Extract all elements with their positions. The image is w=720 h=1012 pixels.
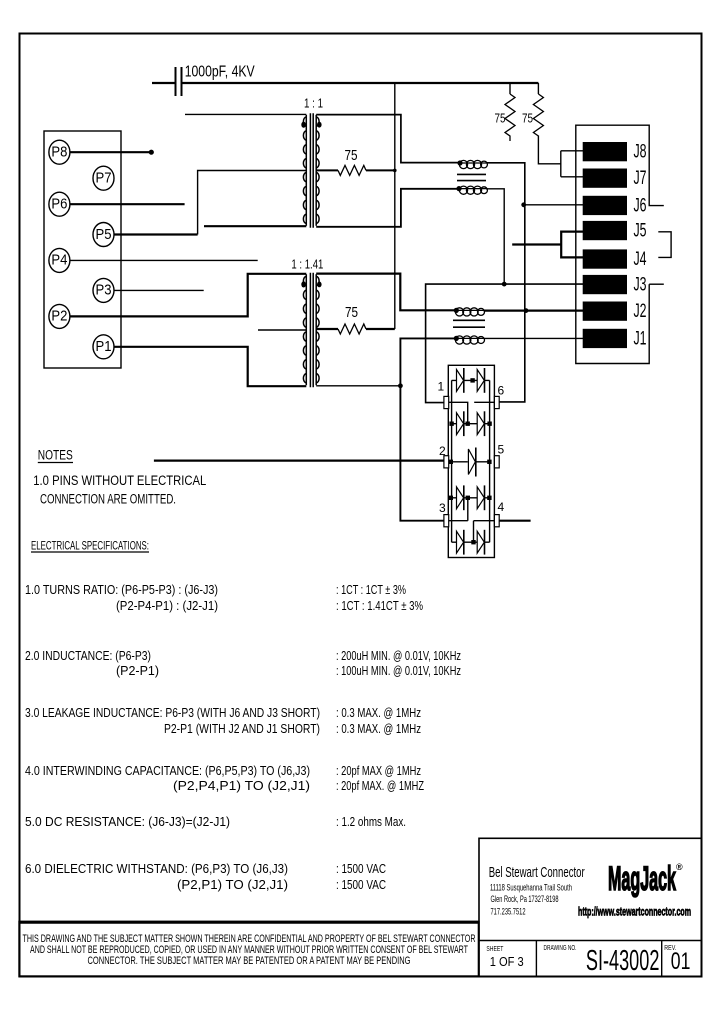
svg-text:DRAWING NO.: DRAWING NO.	[544, 943, 577, 952]
svg-text:1 OF 3: 1 OF 3	[490, 954, 524, 969]
svg-text:Bel Stewart Connector: Bel Stewart Connector	[489, 865, 585, 881]
svg-text:: 1CT : 1.41CT ± 3%: : 1CT : 1.41CT ± 3%	[336, 598, 423, 613]
svg-text:: 1500 VAC: : 1500 VAC	[336, 861, 386, 876]
svg-text:3: 3	[439, 501, 446, 515]
svg-text:1 : 1.41: 1 : 1.41	[291, 256, 323, 271]
svg-text:SI-43002: SI-43002	[586, 945, 660, 977]
svg-text:J1: J1	[634, 328, 647, 349]
svg-text:SHEET: SHEET	[486, 944, 503, 953]
svg-text:1 : 1: 1 : 1	[304, 96, 323, 111]
svg-text:2.0 INDUCTANCE: (P6-P3): 2.0 INDUCTANCE: (P6-P3)	[25, 648, 151, 663]
svg-text:: 200uH MIN. @ 0.01V, 10KHz: : 200uH MIN. @ 0.01V, 10KHz	[336, 648, 461, 663]
svg-text:(P2,P1) TO (J2,J1): (P2,P1) TO (J2,J1)	[177, 877, 288, 892]
svg-text:J6: J6	[634, 195, 647, 216]
svg-text:P8: P8	[51, 145, 67, 161]
svg-text:11118 Susquehanna Trail South: 11118 Susquehanna Trail South	[490, 883, 572, 893]
svg-text:6.0 DIELECTRIC WITHSTAND: (P6,: 6.0 DIELECTRIC WITHSTAND: (P6,P3) TO (J6…	[25, 861, 288, 876]
svg-text:P3: P3	[96, 283, 112, 299]
svg-text:: 100uH MIN. @ 0.01V, 10KHz: : 100uH MIN. @ 0.01V, 10KHz	[336, 663, 461, 678]
svg-text:J8: J8	[634, 142, 647, 163]
svg-text:75: 75	[345, 147, 358, 164]
svg-text:1.0 TURNS RATIO: (P6-P5-P3) :: 1.0 TURNS RATIO: (P6-P5-P3) : (J6-J3)	[25, 582, 218, 597]
svg-text:: 20pf MAX @ 1MHz: : 20pf MAX @ 1MHz	[336, 763, 421, 778]
svg-text:Glen Rock, Pa 17327-8198: Glen Rock, Pa 17327-8198	[491, 894, 559, 904]
svg-text:1: 1	[438, 380, 445, 394]
svg-text:P5: P5	[96, 227, 112, 243]
svg-text:P2-P1 (WITH J2 AND J1 SHORT): P2-P1 (WITH J2 AND J1 SHORT)	[164, 721, 320, 736]
svg-text:5.0 DC RESISTANCE: (J6-J3)=(J2: 5.0 DC RESISTANCE: (J6-J3)=(J2-J1)	[25, 814, 230, 829]
svg-text:2: 2	[439, 444, 446, 458]
svg-text:75: 75	[495, 111, 506, 126]
svg-text:®: ®	[676, 862, 683, 872]
svg-text:717.235.7512: 717.235.7512	[491, 907, 526, 917]
svg-text:P6: P6	[51, 197, 67, 213]
svg-text:J2: J2	[634, 301, 647, 322]
svg-text:(P2-P1): (P2-P1)	[116, 663, 159, 678]
svg-text:http://www.stewartconnector.co: http://www.stewartconnector.com	[578, 905, 691, 919]
svg-text:P4: P4	[51, 253, 67, 269]
svg-text:75: 75	[522, 111, 533, 126]
svg-text:1000pF, 4KV: 1000pF, 4KV	[185, 64, 255, 81]
svg-text:75: 75	[345, 304, 358, 321]
svg-text:4: 4	[498, 500, 505, 514]
svg-text:1.0 PINS WITHOUT ELECTRICAL: 1.0 PINS WITHOUT ELECTRICAL	[33, 473, 206, 488]
svg-text:: 1500 VAC: : 1500 VAC	[336, 877, 386, 892]
svg-text:6: 6	[498, 384, 505, 398]
svg-text:01: 01	[671, 948, 691, 975]
svg-text:: 1CT : 1CT ± 3%: : 1CT : 1CT ± 3%	[336, 582, 406, 597]
svg-text:: 0.3 MAX. @ 1MHz: : 0.3 MAX. @ 1MHz	[336, 721, 421, 736]
svg-text:CONNECTION ARE OMITTED.: CONNECTION ARE OMITTED.	[40, 492, 176, 507]
svg-text:3.0 LEAKAGE INDUCTANCE: P6-P3: 3.0 LEAKAGE INDUCTANCE: P6-P3 (WITH J6 A…	[25, 705, 320, 720]
svg-text:NOTES: NOTES	[38, 448, 73, 463]
svg-text:: 0.3 MAX. @ 1MHz: : 0.3 MAX. @ 1MHz	[336, 705, 421, 720]
svg-text:CONNECTOR. THE SUBJECT MATTER: CONNECTOR. THE SUBJECT MATTER MAY BE PAT…	[88, 955, 411, 967]
svg-text:J4: J4	[634, 249, 647, 270]
svg-text:J5: J5	[634, 220, 647, 241]
svg-text:: 1.2 ohms Max.: : 1.2 ohms Max.	[336, 814, 406, 829]
svg-text:P2: P2	[51, 309, 67, 325]
svg-text:: 20pf MAX. @ 1MHZ: : 20pf MAX. @ 1MHZ	[336, 778, 424, 793]
svg-text:P1: P1	[96, 339, 112, 355]
svg-text:ELECTRICAL SPECIFICATIONS:: ELECTRICAL SPECIFICATIONS:	[31, 541, 149, 553]
svg-text:MagJack: MagJack	[608, 860, 676, 898]
svg-text:J3: J3	[634, 274, 647, 295]
svg-text:J7: J7	[634, 168, 647, 189]
svg-text:5: 5	[498, 443, 505, 457]
svg-text:(P2,P4,P1) TO (J2,J1): (P2,P4,P1) TO (J2,J1)	[173, 778, 310, 793]
svg-text:(P2-P4-P1) : (J2-J1): (P2-P4-P1) : (J2-J1)	[116, 598, 218, 613]
svg-text:P7: P7	[96, 171, 112, 187]
svg-text:4.0 INTERWINDING CAPACITANCE:: 4.0 INTERWINDING CAPACITANCE: (P6,P5,P3)…	[25, 763, 310, 778]
